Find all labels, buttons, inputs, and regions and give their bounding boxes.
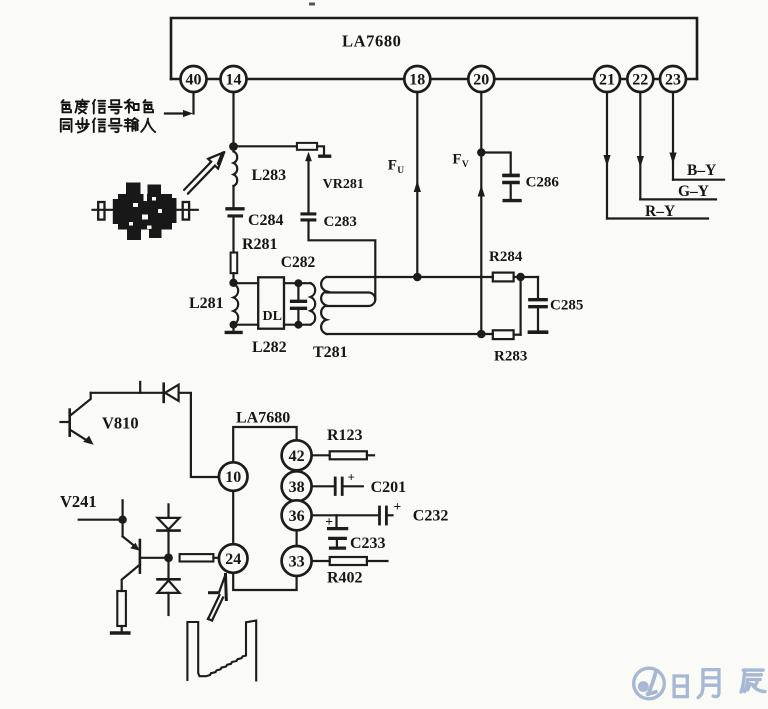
node K junction dot: [164, 553, 173, 562]
svg-text:U: U: [397, 166, 404, 176]
transformer T281 bottom turn wire: [327, 333, 493, 335]
wire node K to VD2: [167, 558, 169, 580]
wire pin 33 to R402: [312, 560, 330, 562]
node C junction dot: [230, 321, 238, 329]
wire pin 21 lead: [606, 90, 608, 219]
svg-text:R–Y: R–Y: [645, 203, 675, 220]
wire pin 14 lead: [232, 90, 234, 147]
inductor L283 coil: [234, 152, 238, 187]
arrowhead pin22 down: [637, 156, 644, 168]
svg-text:T281: T281: [313, 344, 348, 361]
svg-text:LA7680: LA7680: [342, 32, 402, 51]
wire node I down to R283: [519, 277, 521, 335]
delay line DL body: [258, 277, 284, 328]
svg-text:36: 36: [289, 508, 305, 525]
wire G-Y output: [640, 198, 716, 200]
transistor V241 emitter diagonal: [123, 536, 137, 548]
node G junction dot (F_V tap): [477, 330, 486, 339]
diode VD1 triangle (down): [158, 518, 180, 530]
pin 18: [404, 66, 430, 92]
svg-text:+: +: [348, 470, 355, 485]
IC U1 lower outline right mid: [296, 530, 298, 546]
svg-text:22: 22: [632, 72, 648, 89]
node F junction dot (F_U tap): [413, 273, 422, 282]
svg-text:42: 42: [289, 448, 305, 465]
transistor V810 base bar: [68, 410, 71, 436]
svg-text:VR281: VR281: [323, 177, 364, 192]
svg-text:F: F: [388, 158, 397, 174]
pin 38: [282, 471, 312, 501]
wire L283 to C284: [232, 186, 234, 207]
wire DL to node E: [284, 324, 311, 326]
resistor R402 body: [330, 557, 367, 565]
arrowhead V810 emitter: [83, 436, 93, 445]
svg-text:C233: C233: [350, 535, 386, 552]
svg-text:LA7680: LA7680: [236, 410, 290, 427]
wire pin bus y=79: [171, 78, 697, 81]
wire node C to DL: [234, 324, 259, 326]
transformer T281 primary scallops: [321, 277, 326, 334]
pin 33: [282, 546, 312, 576]
wire V241 base to node K: [140, 557, 169, 559]
svg-text:24: 24: [225, 551, 241, 568]
node H junction dot (C286 tap): [477, 148, 485, 156]
wire pin 22 lead: [639, 90, 641, 199]
svg-text:B–Y: B–Y: [687, 162, 716, 179]
node D junction dot: [294, 279, 302, 287]
arrowhead into pin40 lead: [183, 110, 193, 117]
svg-text:V810: V810: [102, 414, 139, 433]
arrowhead F_V up: [478, 185, 485, 197]
svg-text:38: 38: [289, 479, 305, 496]
transistor V810 collector: [70, 393, 91, 416]
arrowhead VR281 wiper: [305, 152, 312, 162]
pin 20: [468, 66, 494, 92]
ceramic filter Z1 lead wire: [93, 209, 198, 211]
wire R123 right stub: [367, 454, 374, 456]
terminal bar right of VR281: [320, 154, 330, 157]
wire DL to node D: [284, 282, 311, 284]
wire V241 base-net left: [79, 519, 123, 521]
svg-text:C283: C283: [324, 214, 357, 230]
resistor R284 body: [493, 273, 514, 282]
diode VD2 cathode bar: [158, 578, 180, 581]
svg-text:18: 18: [409, 72, 425, 89]
wire pin 36 to C232: [312, 514, 379, 516]
node A junction dot below pin14: [229, 142, 238, 151]
pin 24: [219, 544, 248, 573]
diode VD2 triangle (up): [158, 581, 180, 593]
wire chroma input arrow shaft: [165, 112, 186, 114]
IC U1 lower outline top: [233, 427, 296, 463]
terminal bar under C286: [504, 199, 520, 202]
svg-text:V: V: [462, 160, 469, 170]
wire node A to VR281: [234, 145, 297, 147]
resistor R283 body: [493, 330, 514, 339]
arrowhead pin23 down: [669, 153, 676, 165]
pin 23: [660, 66, 686, 92]
inductor L282 coil: [311, 283, 316, 324]
capacitor C232 plates: [378, 507, 381, 524]
IC U1 lower outline left: [232, 491, 234, 545]
svg-text:33: 33: [289, 554, 305, 571]
capacitor C285 plates: [530, 298, 546, 301]
svg-text:R283: R283: [494, 349, 527, 365]
resistor R1 body (V241 collector): [117, 591, 126, 626]
svg-text:R123: R123: [327, 427, 363, 444]
wire R284 to node I: [514, 276, 538, 278]
svg-text:+: +: [325, 514, 333, 529]
svg-text:G–Y: G–Y: [678, 183, 709, 200]
wire diode D1 to pin 10: [179, 393, 219, 477]
wire pin 42 to R123: [312, 454, 330, 456]
label chroma input line2 (同步信号输入): [61, 119, 72, 132]
inductor L281 coil: [234, 284, 239, 325]
resistor R281 body: [231, 253, 238, 274]
capacitor C282 leads: [297, 283, 299, 300]
pin 36: [282, 500, 312, 530]
ground bar under R1: [112, 631, 129, 635]
wire node B to DL: [234, 282, 259, 284]
node J junction dot (V241 top): [118, 516, 126, 524]
wire R-Y output: [607, 217, 708, 219]
wire C285 lower lead: [537, 309, 539, 331]
wire L281 to ground: [232, 325, 234, 331]
svg-text:L283: L283: [252, 167, 287, 184]
svg-text:10: 10: [225, 469, 241, 486]
capacitor C233 foot bar: [331, 546, 345, 549]
wire V241 top stub: [121, 500, 123, 519]
svg-text:C282: C282: [281, 254, 316, 271]
arrowhead V241 emitter (into bar): [130, 543, 139, 551]
wire VR281 right to stub: [317, 146, 324, 154]
wire V241 emitter vertical: [121, 520, 123, 537]
capacitor C201 plates: [334, 478, 337, 495]
svg-text:DL: DL: [263, 309, 282, 324]
label chroma input line1 (色度信号和色): [62, 100, 72, 112]
wire B-Y output: [673, 179, 724, 181]
wire branch to C233: [335, 515, 337, 527]
svg-text:L281: L281: [189, 295, 224, 312]
capacitor C233 bottom plate: [330, 537, 346, 540]
watermark text 日月辰: [674, 670, 765, 698]
pin 22: [627, 66, 653, 92]
pointer arrow to node A (hollow): [184, 152, 224, 194]
svg-text:V241: V241: [60, 492, 97, 511]
wire pin 38 to C201: [312, 485, 334, 487]
svg-text:21: 21: [599, 72, 615, 89]
potentiometer VR281 body: [297, 143, 317, 150]
wire R1 to ground: [121, 626, 123, 631]
wire to C286: [481, 153, 510, 174]
ground bar under L281: [226, 331, 241, 334]
pin 14: [221, 66, 247, 92]
wire R2 to pin 24: [213, 557, 218, 559]
ceramic filter Z1 right cap: [183, 202, 189, 220]
pin 21: [594, 66, 620, 92]
wire V810 collector to diode D1: [91, 392, 164, 394]
resistor R123 body: [330, 451, 367, 459]
sandcastle waveform symbol: [187, 621, 256, 682]
resistor R2 body (to pin 24): [180, 554, 214, 561]
svg-text:23: 23: [665, 72, 681, 89]
capacitor C286 plates: [504, 174, 518, 178]
wire diode chain top stub: [167, 504, 169, 518]
pin 10: [219, 462, 248, 491]
terminal bar under C285: [529, 330, 546, 334]
svg-text:C201: C201: [371, 479, 407, 496]
watermark logo circle: [634, 668, 665, 699]
wire VR281 wiper from C283: [307, 158, 309, 213]
capacitor C233 top plate: [329, 527, 347, 530]
IC U1 lower outline right chain: [296, 468, 298, 473]
capacitor C282 plates: [292, 300, 306, 303]
svg-text:C232: C232: [413, 508, 449, 525]
capacitor C283 plates: [302, 212, 315, 215]
svg-text:+: +: [394, 499, 402, 514]
svg-text:C284: C284: [248, 212, 284, 229]
svg-text:L282: L282: [252, 339, 287, 356]
arrowhead pin21 down: [603, 155, 610, 167]
svg-text:R402: R402: [327, 570, 363, 587]
tick mark on wire: [139, 382, 141, 393]
pin 40: [181, 66, 207, 92]
wire R402 right stub: [367, 560, 388, 562]
transistor V810 emitter: [70, 430, 89, 442]
wire R281 to node B: [232, 273, 234, 283]
wire pin 23 lead: [672, 90, 674, 180]
wire C232 right stub: [388, 514, 393, 516]
transformer T281 hairpin turn: [327, 293, 376, 307]
wire VD1 to node K: [167, 531, 169, 558]
svg-text:C286: C286: [526, 175, 560, 191]
svg-text:40: 40: [186, 72, 202, 89]
node B junction dot: [229, 279, 237, 287]
wire VD2 bottom stub: [167, 593, 169, 615]
wire R283 right: [514, 334, 521, 336]
wire to C285: [537, 277, 539, 298]
ceramic filter Z1 left cap: [98, 202, 104, 220]
diode D1 triangle: [165, 385, 179, 401]
node I junction dot: [516, 273, 524, 281]
wire C283 to T281 tap: [309, 222, 376, 300]
svg-text:R281: R281: [242, 236, 278, 253]
capacitor C284 plates: [227, 207, 243, 210]
node E junction dot: [294, 321, 302, 329]
transformer T281 top turn wire: [327, 276, 493, 278]
svg-text:F: F: [452, 152, 461, 168]
diode VD1 cathode bar: [158, 529, 180, 532]
transistor V241 base bar: [139, 540, 142, 573]
transistor V810 base stub: [61, 421, 70, 423]
wire C286 lower lead: [510, 184, 512, 199]
svg-text:R284: R284: [489, 249, 523, 265]
wire pin 40 lead: [192, 90, 194, 114]
svg-text:C285: C285: [550, 298, 583, 314]
pointer arrow to pin 24 (lightning): [208, 575, 226, 621]
IC U1 LA7680 outline (top block): [171, 18, 697, 79]
ceramic filter Z1 body blob: [113, 183, 177, 241]
capacitor C233 stem: [336, 538, 338, 546]
pin 42: [282, 440, 312, 470]
svg-text:20: 20: [473, 72, 489, 89]
wire pin 20 lead F_V: [480, 90, 482, 334]
transistor V241 collector diagonal: [122, 565, 140, 592]
IC U1 lower outline bottom: [233, 573, 296, 591]
stray mark top edge: [309, 3, 315, 6]
wire C284 to R281: [232, 218, 234, 253]
diode D1 cathode bar: [162, 384, 165, 402]
wire C201 right stub: [344, 485, 363, 487]
arrowhead F_U up: [414, 181, 421, 193]
svg-text:14: 14: [226, 72, 242, 89]
wire pin 18 lead F_U: [416, 90, 418, 277]
